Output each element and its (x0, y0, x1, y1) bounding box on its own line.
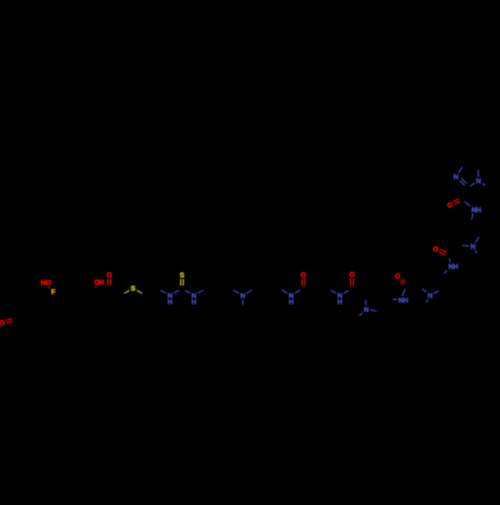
atom label S21 (S) (131, 286, 135, 291)
bond C3-C4 (15, 319, 27, 324)
bond C27-C28 (206, 288, 218, 295)
bond C44=O amide (439, 249, 447, 254)
bond C9-C11 (49, 289, 55, 295)
bond C3=O3 ketone (6, 319, 13, 323)
bond C16-C17 (95, 289, 97, 297)
bond C10-C19 methyl (37, 289, 39, 303)
bond C8-C9 (55, 295, 64, 303)
atom label O11 (HO) (41, 280, 51, 285)
bond C1=C2 (13, 297, 25, 304)
bond C42-pyrrole B (406, 285, 419, 288)
atom label O40 (O) (350, 272, 355, 277)
bond C46-imidazole (462, 188, 467, 199)
bond C20=O ketone (108, 279, 111, 286)
bond C2-C3 (13, 304, 15, 319)
bond C22-C23 (145, 288, 157, 295)
bond C42=O amide (400, 279, 405, 284)
bond C9-C10 (38, 295, 55, 303)
bond imidazole N3-C4 (459, 167, 463, 172)
atom label O36 (O) (301, 272, 306, 277)
bond N43-C44 amide (448, 258, 451, 262)
bond pyrrole A C2=C3 (366, 290, 377, 297)
bond C4c-N45 anilide (472, 214, 473, 220)
bond pyrrole A C5-N1 (370, 310, 377, 311)
bond C15-C16 (89, 298, 98, 307)
atom label N1a (N) (364, 307, 368, 312)
bond C32-C33 (255, 288, 267, 295)
bond C5-C10 (38, 303, 40, 317)
atom label O44 (O) (433, 247, 438, 252)
atom label O17 (OH) (94, 280, 103, 285)
bond N35-C36 amide (295, 290, 300, 293)
atom label O42 (O) (395, 274, 400, 279)
atom label N30 (N) (241, 293, 245, 298)
atom label N1b (N) (428, 293, 432, 298)
bond C40-pyrrole A (352, 289, 366, 297)
bond C13-C14 (73, 290, 76, 304)
bond pyrrole B C3-C4 (425, 274, 441, 276)
bond C38-N39 (331, 290, 337, 293)
atom label F9 (F) (52, 289, 56, 294)
bond C25=S thiourea (181, 279, 184, 286)
bond pyrrole C C5-N1 (476, 237, 479, 242)
bond C16 methyl (98, 298, 110, 304)
atom label N26 (N, H below) (192, 293, 196, 304)
bond C28-C29 (218, 288, 230, 295)
atom label O20 (O) (107, 272, 112, 277)
bond N30-CH3 (242, 299, 244, 304)
bond pyrrole B C2=C3 (419, 274, 425, 287)
atom label O3 (O) (0, 320, 5, 325)
bond pyrrole A N1-C2 (365, 300, 367, 306)
bond C6-C7 (52, 317, 64, 324)
bond C44-pyrrole C (449, 245, 459, 255)
bond N24-C25 (174, 290, 179, 293)
bond C8-C14 (64, 302, 76, 304)
bond pyrrole C N-CH3 (475, 250, 477, 253)
bond C20-C21 (109, 288, 121, 295)
bond C40=O amide (351, 279, 354, 286)
atom label N1c (N) (471, 244, 475, 249)
bond C11-C12 (49, 284, 61, 290)
bond pyrrole B C5-N1 (434, 291, 439, 294)
bond pyrrole A C3-C4 (377, 290, 390, 299)
bond C9-F (0, 0, 1, 1)
bond N39-C40 amide (344, 290, 349, 293)
bond C11-OH (48, 286, 50, 288)
bond imidazole C4=C5 (464, 164, 478, 166)
bond pyrrole C C2=C3 (459, 231, 460, 245)
bond C1-C10 (25, 297, 38, 303)
bond C36=O amide (302, 279, 305, 286)
bond C5-C6 (40, 317, 52, 324)
atom label N24 (N, H below) (168, 293, 172, 304)
bond imidazole C2=N3 (460, 178, 467, 185)
bond pyrrole A C4=C5 (380, 299, 389, 312)
bond C17-OH (95, 286, 97, 288)
bond C21-S (124, 290, 129, 293)
bond C25-N26 (185, 290, 190, 293)
atom label S25 (S) (180, 273, 184, 278)
bond pyrrole C N1-C2 (462, 245, 469, 248)
atom label O46 (O) (448, 202, 453, 207)
bond pyrrole A N-CH3 (359, 313, 362, 316)
bond C13-C18 methyl (72, 276, 74, 290)
bond C46=O amide (453, 199, 460, 204)
atom label N1i (N) (476, 178, 480, 183)
bond C37-C38 (316, 288, 328, 295)
atom label N35 (N, H below) (289, 293, 293, 304)
bond S-C22 (137, 290, 142, 293)
bond C4b-N43 anilide (444, 270, 447, 273)
bond N45-C46 amide (465, 201, 471, 206)
bond C33-C34 (267, 288, 279, 295)
bond imidazole C5-N1 (477, 170, 479, 177)
atom label N41 (NH) (399, 298, 408, 303)
atom label N45 (NH) (472, 207, 481, 212)
bond C23-N24 (160, 290, 166, 293)
bond C14-C15 (76, 303, 90, 307)
bond imidazole N1-C2 (470, 183, 475, 186)
bond C17-C20 (95, 288, 109, 289)
bond N30-C32 (246, 290, 251, 293)
bond pyrrole C C3-C4 (460, 223, 471, 231)
bond C29-N30 (233, 290, 239, 293)
bond C4a-N41 anilide (393, 298, 398, 300)
bond pyrrole C C4=C5 (471, 223, 481, 234)
bond C34-N35 (282, 290, 287, 293)
bond pyrrole B N1-C2 (422, 289, 426, 293)
bond C36-C37 (303, 288, 315, 295)
atom label N3i (N) (454, 174, 458, 179)
bond C7-C8 (63, 303, 65, 317)
bond N26-C27 (198, 290, 203, 293)
atom label N43 (NH) (449, 264, 458, 269)
atom label N39 (N, H below) (338, 293, 342, 304)
bond N41-C42 amide (402, 289, 405, 296)
bond pyrrole B N-CH3 (426, 299, 428, 302)
bond imidazole N-CH3 (482, 183, 485, 185)
bond C4=C5 (28, 317, 40, 324)
bond pyrrole B C4=C5 (441, 276, 443, 289)
bond C13-C17 (73, 288, 95, 290)
bond C12-C13 (61, 284, 73, 290)
